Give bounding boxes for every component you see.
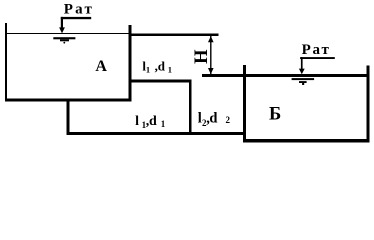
tank A bottom wall [5, 99, 132, 102]
label l1,d1 (upper, vertical drop pipe) [142, 59, 172, 75]
pipe step-down vertical at tank A outlet [67, 99, 70, 135]
top reference line (wire from tank A to H datum) [129, 33, 219, 36]
svg-text:2: 2 [226, 115, 231, 125]
right free-surface symbol bar 2 [299, 81, 307, 83]
tank B right wall [367, 66, 370, 143]
svg-text:1: 1 [168, 64, 172, 74]
Pat left leader vertical wire [61, 17, 63, 29]
H dimension arrow (level difference) [208, 36, 214, 74]
right free-surface symbol bar 1 [292, 78, 315, 80]
tank B bottom wall [243, 139, 370, 142]
svg-text:d: d [149, 114, 157, 129]
Pat right arrowhead [299, 69, 305, 75]
svg-text:1: 1 [146, 64, 150, 74]
svg-text:Рат: Рат [64, 2, 94, 18]
left free-surface symbol bar 2 [60, 39, 69, 41]
tank A left wall [5, 23, 7, 101]
label l1,d1 (lower, horizontal pipe) [135, 114, 166, 130]
pipe bottom wall [67, 132, 243, 135]
Pat right leader underline [300, 57, 335, 59]
svg-text:d: d [209, 111, 217, 127]
label l2,d2 (second pipe) [198, 111, 231, 128]
svg-text:Рат: Рат [302, 42, 331, 58]
pipe step vertical between l1 and l2 [189, 80, 192, 135]
tank B water surface line [202, 74, 370, 77]
tank B left wall [243, 65, 246, 142]
tank A right wall [129, 25, 132, 101]
right free-surface symbol stem [302, 83, 304, 85]
svg-text:Н: Н [192, 49, 212, 64]
left free-surface symbol bar 1 [53, 37, 75, 39]
svg-text:А: А [95, 58, 107, 75]
svg-text:Б: Б [269, 105, 281, 125]
Pat right leader vertical wire [301, 57, 303, 69]
svg-text:d: d [158, 59, 166, 74]
pipe l1 top wall [129, 80, 192, 83]
left free-surface symbol dot [63, 42, 65, 44]
tank A water surface line [5, 33, 128, 34]
Pat left leader underline [61, 17, 91, 19]
svg-text:1: 1 [161, 119, 166, 129]
svg-text:l: l [135, 114, 139, 129]
Pat left arrowhead [59, 27, 65, 33]
